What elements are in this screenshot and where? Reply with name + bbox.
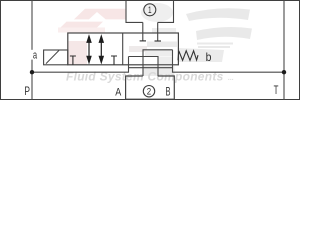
junction dot T [282,70,286,74]
solenoid a box [44,50,68,65]
spring b [178,51,198,61]
watermark pink pole block [69,41,88,65]
svg-text:1: 1 [148,5,152,16]
svg-text:a: a [33,50,38,62]
watermark gray C swoosh [178,8,252,62]
svg-text:b: b [206,50,212,64]
wire P to valve horizontal [32,57,129,73]
watermark pink flag band lower [60,22,103,28]
watermark gray fragment below divider [129,46,147,52]
rect A connection box [143,50,173,76]
svg-text:T: T [274,83,279,97]
double arrow 2 [99,36,103,63]
wire T vertical line [283,0,285,100]
junction dot P [30,70,34,74]
watermark gray fragment above valve top [152,28,176,33]
svg-text:B: B [166,87,171,99]
label a halo [30,50,39,60]
block 1 top connector body [126,1,174,23]
blocked port T symbol left1 [70,56,76,65]
block 1 tab wires down to valve [142,22,144,41]
valve body outline [68,33,179,65]
wire P vertical line [31,0,33,100]
callout circle 1 [144,4,156,16]
blocked port symbol right square top1 [140,40,146,42]
svg-text:...: ... [228,75,234,82]
rect B connection box [129,57,159,77]
svg-text:A: A [115,87,122,99]
callout circle 2 [143,86,154,97]
watermark pink flag band top [74,9,126,20]
blocked port symbol right square top2 [155,40,162,42]
svg-text:2: 2 [147,87,151,98]
wire valve to T horizontal [173,50,285,72]
valve position divider [122,33,124,65]
watermark gray fragment inside valve right square [147,42,177,48]
svg-text:P: P [24,86,30,98]
blocked port T symbol left2 [111,56,117,65]
block 2 subplate body [126,76,175,99]
watermark pink faint lower stripe [58,28,105,33]
watermark gray fragment tab gap [144,66,175,76]
solenoid a diagonal [46,50,59,63]
watermark pink flag notch [89,12,106,20]
border frame [1,1,300,100]
wire lower manifold horizontal [129,67,173,69]
watermark gray blob behind block 1 [141,3,173,22]
double arrow 1 [87,36,91,63]
